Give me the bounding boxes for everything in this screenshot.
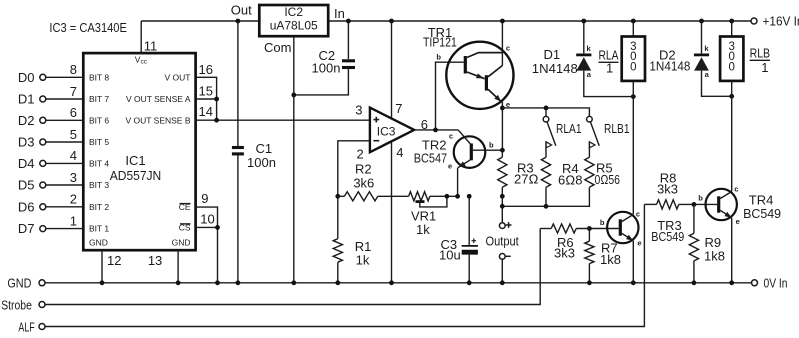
svg-text:Com: Com	[264, 40, 291, 55]
svg-text:1k: 1k	[356, 253, 370, 268]
svg-text:D6: D6	[18, 199, 35, 214]
diode D1 1N4148	[532, 21, 634, 97]
svg-text:BIT 2: BIT 2	[89, 202, 109, 212]
svg-text:6: 6	[70, 105, 77, 120]
svg-text:100n: 100n	[312, 61, 341, 76]
svg-text:ALF: ALF	[18, 319, 34, 334]
svg-text:TIP121: TIP121	[423, 35, 457, 50]
svg-text:10u: 10u	[439, 248, 461, 263]
svg-text:3k3: 3k3	[657, 181, 678, 196]
svg-text:c: c	[734, 185, 738, 194]
svg-text:cc: cc	[141, 59, 148, 66]
node: pin15 junction	[214, 97, 219, 102]
svg-text:1N4148: 1N4148	[649, 58, 690, 73]
op-amp IC3 CA3140E	[370, 108, 414, 153]
svg-text:2: 2	[70, 192, 77, 207]
wire: IC1 pin 16 V OUT stub	[196, 62, 217, 120]
terminal D2 input	[18, 113, 46, 128]
svg-text:9: 9	[201, 191, 208, 206]
node: TR1 emitter junction	[500, 106, 505, 111]
svg-text:8: 8	[70, 62, 77, 77]
transistor TR4 BC549	[698, 185, 781, 227]
wire: D6 to IC1 pin 2	[46, 192, 83, 207]
node: RLA coil on 16V rail	[631, 19, 636, 24]
svg-text:1: 1	[761, 60, 768, 75]
svg-text:27Ω: 27Ω	[514, 172, 538, 187]
node: R7 on 0V rail	[587, 280, 592, 285]
transistor TR2 BC547	[414, 130, 503, 196]
wire: jumper to sense tie	[501, 196, 503, 206]
wire: IC1 pin 14 V OUT SENSE B to IC3 pin 3	[196, 103, 370, 121]
svg-text:b: b	[698, 194, 703, 203]
svg-text:13: 13	[148, 253, 162, 268]
wire: IC1 pin 11 Vcc riser	[141, 21, 157, 54]
resistor R6 3k3	[540, 224, 618, 261]
node: Com riser on 0V rail	[291, 280, 296, 285]
node: RLA1 tap	[544, 106, 549, 111]
svg-text:RLB: RLB	[750, 46, 771, 61]
node: junction output / TR1 base	[433, 127, 438, 132]
node: TR2 base on TR1 emitter line	[500, 148, 505, 153]
wire: D3 to IC1 pin 5	[46, 127, 83, 142]
transistor TR1 TIP121	[423, 25, 514, 109]
wire: 0V / GND rail	[45, 282, 752, 284]
resistor R9 1k8	[689, 204, 725, 282]
svg-text:b: b	[489, 141, 494, 150]
diode D2 1N4148	[649, 21, 731, 96]
node: R9 on 0V rail	[692, 280, 697, 285]
wire: IC1 pin 13 GND	[148, 250, 178, 283]
wire: D5 to IC1 pin 3	[46, 170, 83, 185]
resistor R7 1k8	[585, 229, 621, 283]
wire: IC1 pin 9 CE stub	[196, 191, 218, 227]
resistor R1 1k	[333, 196, 371, 282]
svg-text:1k: 1k	[416, 222, 430, 237]
svg-text:GND: GND	[89, 238, 108, 248]
svg-text:GND: GND	[172, 238, 191, 248]
wire: D4 to IC1 pin 4	[46, 148, 83, 163]
svg-text:D0: D0	[18, 70, 35, 85]
wire: IC1 pin 12 GND	[102, 250, 121, 283]
wire: RLA coil to TR3 collector	[632, 97, 634, 215]
svg-text:1: 1	[606, 61, 613, 76]
svg-text:6: 6	[421, 117, 428, 132]
node: TR2 emitter on feedback line	[455, 194, 460, 199]
wire: IC3 pin 6 output	[414, 117, 458, 132]
node: D1 anode / RLA coil / TR3 collector	[631, 94, 636, 99]
capacitor C3 10u electrolytic	[439, 196, 478, 282]
svg-text:BIT 3: BIT 3	[89, 180, 109, 190]
wire: ALF line	[45, 204, 644, 326]
svg-text:GND: GND	[7, 276, 31, 291]
wire: D0 to IC1 pin 8	[46, 62, 83, 77]
svg-text:7: 7	[395, 101, 402, 116]
node: junction 5V rail / C1	[236, 19, 241, 24]
relay coil RLA 300	[599, 21, 646, 97]
terminal D7 input	[18, 221, 46, 236]
svg-text:100n: 100n	[247, 155, 276, 170]
wire: IC3 pin 2 inverting input feedback	[338, 141, 370, 197]
svg-text:BC549: BC549	[743, 206, 781, 221]
IC IC1 AD557JN	[83, 53, 195, 250]
svg-text:Output: Output	[486, 234, 520, 249]
svg-text:b: b	[436, 53, 441, 62]
transistor TR3 BC549	[600, 210, 684, 248]
node: TR4 emitter on 0V rail	[729, 280, 734, 285]
svg-text:AD557JN: AD557JN	[110, 168, 162, 183]
svg-text:V OUT SENSE A: V OUT SENSE A	[126, 94, 191, 104]
svg-text:c: c	[449, 132, 453, 141]
svg-text:D1: D1	[18, 92, 35, 107]
potentiometer VR1 1k	[409, 192, 458, 237]
svg-text:D1: D1	[544, 47, 561, 62]
node: TR3 emitter on 0V rail	[631, 280, 636, 285]
svg-text:4: 4	[70, 148, 77, 163]
svg-text:BIT 4: BIT 4	[89, 159, 109, 169]
svg-text:0: 0	[630, 62, 636, 74]
svg-text:12: 12	[107, 253, 121, 268]
svg-text:uA78L05: uA78L05	[270, 19, 318, 33]
svg-text:3: 3	[70, 170, 77, 185]
node: D2 on 16V rail	[699, 19, 704, 24]
wire: D1 to IC1 pin 7	[46, 84, 83, 99]
node: CS junction	[215, 225, 220, 230]
svg-text:e: e	[637, 239, 641, 248]
capacitor C2 100n	[294, 21, 355, 95]
svg-text:3k6: 3k6	[353, 176, 374, 191]
wire: +16V In rail	[328, 20, 751, 22]
terminal D4 input	[18, 156, 46, 171]
wire: IC3 pin 7 supply	[392, 21, 403, 119]
node: pin14 junction	[214, 118, 219, 123]
capacitor C1 100n	[232, 21, 276, 283]
svg-text:BIT 1: BIT 1	[89, 224, 109, 234]
resistor R3 27ohm	[498, 150, 539, 196]
node: junction pin2 / R2 / R1	[335, 194, 340, 199]
node: C3 top	[467, 194, 472, 199]
node: pin13 on GND rail	[176, 280, 181, 285]
node: pin12 on GND rail	[100, 280, 105, 285]
svg-text:14: 14	[199, 104, 213, 119]
terminal 0V In	[752, 275, 788, 290]
svg-text:b: b	[600, 218, 605, 227]
node: pin4 on 0V rail	[389, 280, 394, 285]
svg-text:BC549: BC549	[651, 229, 684, 244]
wire: emitter to relay contacts RLB1	[502, 108, 589, 117]
resistor R8 3k3	[644, 170, 717, 209]
svg-text:1: 1	[70, 213, 77, 228]
svg-text:RLB1: RLB1	[604, 121, 630, 136]
svg-text:D2: D2	[18, 113, 35, 128]
wire: IC1 pin 15 V OUT SENSE A stub	[196, 83, 217, 99]
node: R3 bottom junction	[500, 194, 505, 199]
svg-text:BIT 7: BIT 7	[89, 94, 109, 104]
node: RLB coil on 16V rail	[729, 19, 734, 24]
svg-text:Strobe: Strobe	[1, 297, 32, 312]
svg-text:V OUT: V OUT	[165, 72, 191, 82]
svg-text:c: c	[636, 210, 640, 219]
relay contact RLA1	[543, 108, 581, 157]
wire: IC3 pin 4 to 0V rail	[392, 142, 404, 283]
svg-text:1k8: 1k8	[704, 249, 725, 264]
resistor R2 3k6	[338, 162, 409, 201]
svg-text:BIT 6: BIT 6	[89, 115, 109, 125]
node: output - on 0V rail	[500, 280, 505, 285]
svg-text:IC3 = CA3140E: IC3 = CA3140E	[49, 20, 127, 35]
terminal Output +	[499, 206, 511, 228]
svg-text:10: 10	[200, 212, 214, 227]
node: junction 16V rail / IC3 pin 7	[389, 19, 394, 24]
node: VR1 tap junction	[445, 194, 450, 199]
svg-text:c: c	[506, 44, 510, 53]
node: output + node	[500, 204, 505, 209]
terminal Output -	[486, 234, 520, 283]
svg-text:2: 2	[357, 146, 364, 161]
svg-text:BIT 5: BIT 5	[89, 137, 109, 147]
resistor R4 6R8	[541, 157, 582, 206]
node: TR1 collector on rail	[500, 19, 505, 24]
svg-text:V OUT SENSE B: V OUT SENSE B	[125, 115, 190, 125]
node: R1 on 0V rail	[335, 280, 340, 285]
node: C2 return on Com riser	[291, 93, 296, 98]
svg-text:e: e	[736, 217, 740, 226]
note: IC3 = CA3140E	[49, 20, 127, 35]
wire: TR4 emitter to 0V rail	[731, 218, 733, 283]
terminal D6 input	[18, 199, 46, 214]
terminal Strobe	[1, 297, 45, 312]
node: D2 anode / RLB coil / TR4 collector	[729, 94, 734, 99]
svg-text:7: 7	[70, 84, 77, 99]
node: R4 bottom	[544, 204, 549, 209]
IC IC2 uA78L05 regulator	[231, 3, 345, 56]
svg-text:16: 16	[199, 62, 213, 77]
wire: D7 to IC1 pin 1	[46, 213, 83, 228]
terminal +16V In	[751, 14, 799, 29]
svg-text:R2: R2	[355, 162, 372, 177]
terminal D1 input	[18, 92, 46, 107]
svg-text:0: 0	[728, 62, 734, 74]
node: C1 on 0V rail	[236, 280, 241, 285]
svg-text:In: In	[334, 6, 345, 21]
node: junction 16V rail / C2	[346, 19, 351, 24]
svg-text:5: 5	[70, 127, 77, 142]
svg-text:4: 4	[396, 145, 403, 160]
wire: 5V rail from IC2 Out to IC1 pin 11	[141, 20, 259, 22]
relay contact RLB1	[587, 116, 630, 157]
svg-text:C1: C1	[256, 141, 273, 156]
wire: Strobe line	[45, 229, 540, 305]
relay coil RLB 300	[720, 21, 770, 96]
svg-text:BIT 8: BIT 8	[89, 72, 109, 82]
svg-text:+16V In: +16V In	[763, 14, 799, 29]
wire: IC2 Com riser to 0V rail	[293, 36, 295, 283]
svg-text:15: 15	[199, 83, 213, 98]
wire: TR3 emitter to 0V rail	[632, 241, 634, 283]
svg-text:0V In: 0V In	[764, 275, 788, 290]
wire: sense tie to R4 R5 bottoms	[502, 187, 589, 206]
svg-text:3k3: 3k3	[554, 246, 575, 261]
svg-text:D5: D5	[18, 178, 35, 193]
node: D1 on 16V rail	[581, 19, 586, 24]
svg-text:BC547: BC547	[414, 151, 447, 166]
svg-text:e: e	[448, 162, 452, 171]
svg-text:IC1: IC1	[125, 153, 145, 168]
svg-text:1k8: 1k8	[600, 252, 621, 267]
node: CE/CS riser on 0V rail	[215, 280, 220, 285]
wire: TR1 emitter down	[501, 102, 503, 151]
svg-text:1N4148: 1N4148	[532, 61, 578, 76]
terminal D5 input	[18, 178, 46, 193]
wire: D2 to IC1 pin 6	[46, 105, 83, 120]
resistor R5 0R56	[585, 157, 620, 187]
svg-text:11: 11	[144, 39, 158, 54]
wire: IC1 pin 10 CS stub, riser to 0V	[196, 212, 218, 283]
terminal ALF	[18, 319, 45, 334]
terminal D0 input	[18, 70, 46, 85]
terminal D3 input	[18, 135, 46, 150]
svg-text:6Ω8: 6Ω8	[558, 173, 582, 188]
svg-text:RLA1: RLA1	[556, 121, 582, 136]
wire: RLB coil to TR4 collector	[731, 96, 733, 191]
node: R6 / R7 junction	[587, 226, 592, 231]
svg-text:D7: D7	[18, 221, 35, 236]
node: R8 / R9 / TR4 base junction	[692, 202, 697, 207]
svg-text:IC3: IC3	[377, 124, 396, 138]
svg-text:0Ω56: 0Ω56	[595, 172, 621, 187]
node: C3 on 0V rail	[467, 280, 472, 285]
svg-text:D4: D4	[18, 156, 35, 171]
svg-text:Out: Out	[231, 3, 252, 18]
svg-text:IC2: IC2	[284, 5, 303, 19]
terminal GND	[7, 276, 45, 291]
wire: TR1 base drive riser	[436, 62, 464, 130]
svg-text:3: 3	[355, 103, 362, 118]
wire: TR1 collector to 16V rail	[501, 21, 503, 66]
svg-text:D3: D3	[18, 135, 35, 150]
